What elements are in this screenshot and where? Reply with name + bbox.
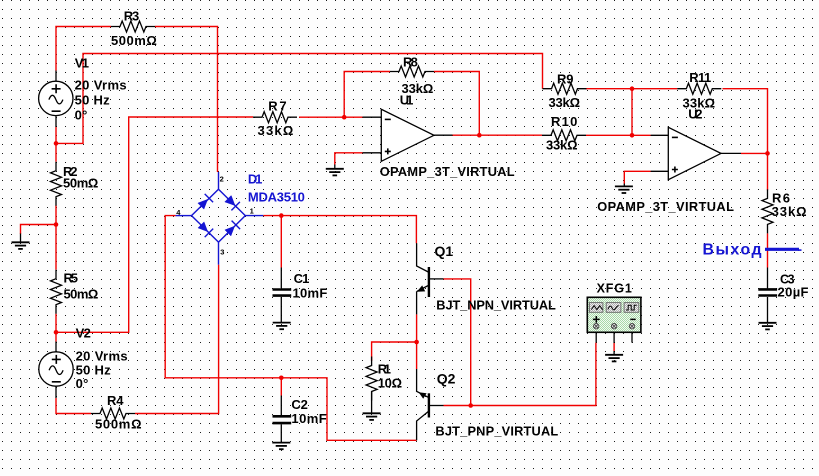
svg-text:R11: R11 [689, 70, 711, 85]
svg-text:33kΩ: 33kΩ [258, 123, 294, 138]
bridge pin 3 lead [218, 242, 220, 265]
wire U2 out to node [741, 152, 768, 154]
ground G5 C2 [272, 443, 290, 450]
node R10/U2- [630, 133, 635, 138]
svg-text:33kΩ: 33kΩ [546, 138, 578, 153]
svg-text:R3: R3 [124, 8, 140, 23]
wire U2 plus to ground G3 [624, 171, 650, 183]
wire R3 right to bridge pin2 [155, 27, 218, 173]
wire G1 stem [20, 234, 22, 243]
wire R8 right down to U1 output [434, 72, 479, 136]
source V2 [39, 352, 73, 386]
svg-text:20 Vrms: 20 Vrms [75, 78, 127, 93]
node R1/emitters [414, 340, 419, 345]
wire G2 stem [334, 165, 336, 169]
wire Q1 emitter to Q2 emitter [416, 314, 418, 369]
op-amp U2 [668, 127, 721, 179]
resistor R5 [51, 270, 62, 314]
svg-text:10Ω: 10Ω [378, 375, 402, 390]
diode top-left [198, 199, 208, 209]
svg-text:R4: R4 [107, 393, 124, 408]
diode bridge diamond [192, 189, 246, 242]
wire R2 bottom through junction to R5 top [55, 206, 57, 270]
svg-text:Выход: Выход [703, 241, 762, 258]
wire U1 output to R10 left [453, 134, 543, 136]
svg-text:33kΩ: 33kΩ [549, 95, 581, 110]
diode bar bottom-left [205, 229, 214, 238]
svg-text:C1: C1 [294, 271, 310, 286]
svg-text:50 Hz: 50 Hz [75, 93, 111, 108]
wire G3 stem [623, 184, 625, 187]
wire V2+ node to x=128.7 riser to R7 [56, 117, 253, 332]
wire XFG1 terminal stubs [596, 333, 632, 355]
wire R11 right down past U2 out to R6 [723, 89, 768, 191]
bridge pin 4 lead [176, 215, 192, 217]
svg-text:20 Vrms: 20 Vrms [76, 348, 128, 363]
svg-text:XFG1: XFG1 [597, 282, 632, 296]
svg-text:1: 1 [250, 207, 254, 216]
wire Q1 base to Q2 base riser [444, 279, 471, 406]
op-amp U1 [381, 109, 434, 161]
wire bridge pin4 down to y=377.8 rail [165, 216, 417, 441]
svg-text:3: 3 [220, 248, 224, 257]
node R7/U1- [342, 115, 347, 120]
wire junction up to R8 left [344, 72, 390, 118]
bridge pin 2 lead [218, 172, 220, 189]
svg-text:R8: R8 [403, 55, 418, 70]
svg-text:R9: R9 [557, 71, 574, 86]
node R9/R11 [630, 86, 635, 91]
resistor R11 [677, 83, 721, 94]
wire bridge pin1 to Q1 collector [263, 216, 416, 244]
resistor R9 [543, 83, 587, 94]
ground G7 XFG1 [605, 355, 623, 362]
resistor R8 [390, 66, 434, 77]
wire R1 top [372, 342, 417, 361]
ground G4 C1 [273, 323, 291, 330]
svg-text:50mΩ: 50mΩ [63, 175, 98, 190]
node Q2 base [468, 403, 473, 408]
resistor R4 [91, 408, 135, 419]
capacitor C2 [273, 416, 292, 423]
svg-text:C2: C2 [291, 397, 307, 412]
wire V1 bottom to junction to R2 top [55, 127, 57, 162]
wire V1- node up x=83 across y=53.5 to R9 [56, 54, 543, 144]
diode bottom-right [225, 226, 235, 236]
svg-text:V1: V1 [75, 56, 89, 71]
svg-text:D1: D1 [248, 172, 263, 187]
svg-text:Q1: Q1 [435, 243, 454, 259]
svg-text:500mΩ: 500mΩ [95, 417, 142, 432]
resistor R7 [253, 112, 297, 123]
svg-text:0°: 0° [75, 107, 88, 122]
svg-text:U1: U1 [400, 92, 414, 107]
svg-text:R1: R1 [378, 361, 391, 376]
wire C1 top [280, 216, 282, 268]
svg-text:OPAMP_3T_VIRTUAL: OPAMP_3T_VIRTUAL [597, 199, 734, 214]
diode bottom-left [198, 222, 208, 232]
transistor Q2 [417, 369, 444, 440]
wire V2 leads [55, 342, 57, 399]
wire V1 leads [55, 71, 57, 128]
wire C3 leads [767, 268, 769, 323]
svg-text:2: 2 [220, 175, 224, 184]
ground G3 U2 plus [615, 186, 633, 193]
ground G1 left [12, 242, 30, 249]
svg-text:10mF: 10mF [293, 285, 328, 300]
svg-text:BJT_PNP_VIRTUAL: BJT_PNP_VIRTUAL [435, 423, 558, 438]
wire Q2 base to XFG1 plus [444, 343, 596, 406]
wire R7 right to U1 minus junction [299, 116, 363, 118]
ground G8 C3 [759, 323, 777, 330]
wire C2 top [280, 378, 282, 396]
svg-text:50mΩ: 50mΩ [64, 287, 99, 302]
diode bar bottom-right [232, 221, 241, 230]
svg-text:MDA3510: MDA3510 [248, 190, 305, 205]
svg-text:BJT_NPN_VIRTUAL: BJT_NPN_VIRTUAL [436, 297, 556, 312]
source V1 [39, 81, 73, 115]
wire V1 top to R3 left [56, 27, 111, 71]
resistor R2 [51, 162, 62, 206]
wire junction to ground G1 [21, 225, 57, 235]
wire C2 leads [280, 396, 282, 443]
svg-text:R7: R7 [268, 99, 286, 114]
node R5/V2+ [54, 330, 59, 335]
node R2/R5/gnd [54, 222, 59, 227]
svg-text:R5: R5 [64, 271, 79, 286]
svg-text:OPAMP_3T_VIRTUAL: OPAMP_3T_VIRTUAL [380, 164, 515, 179]
wire V2 bottom to R4 [56, 398, 91, 414]
bridge pin 1 lead [245, 215, 263, 217]
ground G2 U1 plus [326, 169, 344, 176]
svg-text:R10: R10 [551, 114, 577, 129]
wire R6 bottom red segment to C3 [767, 233, 769, 267]
wire C1 leads [280, 268, 282, 323]
node U1 out [477, 133, 482, 138]
wire XFG1 mid red segment [613, 343, 615, 351]
node Выход blue bus [765, 248, 799, 251]
wire R1 bottom stem [371, 392, 373, 414]
capacitor C3 [758, 289, 777, 295]
wire U1 plus to ground G2 [335, 153, 363, 165]
diode top-right [225, 196, 235, 206]
wire R5 bottom junction V2 top [55, 314, 57, 342]
node V1-/R2 [54, 141, 59, 146]
node U2 out [765, 151, 770, 156]
diode bar top-left [205, 194, 213, 202]
resistor R10 [542, 130, 586, 141]
wire R10 right to U2 minus [586, 134, 651, 136]
svg-text:33kΩ: 33kΩ [772, 204, 807, 219]
node C2 rail [279, 376, 284, 381]
capacitor C1 [273, 290, 292, 296]
wire R9 right to R11 left [586, 88, 678, 90]
svg-text:V2: V2 [76, 326, 91, 341]
diode bar top-right [231, 202, 240, 211]
svg-text:20µF: 20µF [778, 284, 809, 299]
node bridge pin1/C1 [279, 213, 284, 218]
resistor R1 [366, 357, 377, 401]
wire U2 input/output leads [651, 135, 741, 171]
wire U1 input/output leads [363, 117, 453, 153]
wire R4 right up to bridge pin3 [135, 265, 219, 414]
svg-text:10mF: 10mF [291, 411, 326, 426]
transistor Q1 [417, 243, 444, 314]
svg-text:U2: U2 [688, 107, 702, 122]
svg-text:0°: 0° [76, 376, 89, 391]
svg-text:Q2: Q2 [437, 370, 456, 386]
ground G6 R1 [363, 413, 381, 420]
svg-text:500mΩ: 500mΩ [111, 33, 157, 48]
resistor R6 [762, 189, 773, 233]
resistor R3 [111, 21, 155, 32]
wire R9-R11 node down to R10 node [631, 89, 633, 136]
